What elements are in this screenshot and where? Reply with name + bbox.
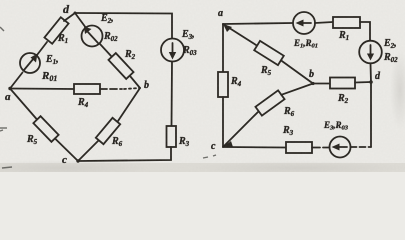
wire R1 to top-right corner bbox=[360, 22, 370, 41]
wire b to R2 bbox=[313, 83, 330, 85]
wire R3 to bottom wire bbox=[78, 147, 171, 161]
wire a to R4 (middle branch) bbox=[10, 88, 74, 91]
resistor R4 bbox=[74, 84, 100, 94]
wire a to E1 (arm a-d lower part) bbox=[10, 73, 23, 89]
diagonal a to R5 bbox=[223, 24, 257, 46]
wire E2 to d bbox=[370, 64, 373, 83]
node dot d (right circuit) bbox=[369, 80, 373, 84]
wire c to R6 (arm c-b) bbox=[78, 141, 98, 161]
wire E2 to R2 bbox=[100, 44, 112, 57]
wire R2 to d bbox=[355, 81, 371, 84]
resistor R1 bbox=[44, 17, 68, 43]
wire c to R3 (bottom edge) bbox=[223, 146, 286, 149]
EMF source E3,R03 (right circuit) bbox=[330, 137, 351, 158]
wire d to bottom-right corner bbox=[370, 82, 372, 147]
resistor R6 bbox=[96, 118, 120, 144]
wire E1 to R1 bbox=[37, 42, 47, 55]
node dot c (right circuit) bbox=[223, 141, 233, 147]
wire R4 to c bbox=[222, 97, 224, 147]
resistor R2 (right circuit) bbox=[330, 78, 355, 89]
wire a to E1 (top edge) bbox=[223, 23, 293, 24]
wire R3 to E3 bbox=[312, 147, 329, 149]
node dot d (left circuit) bbox=[74, 12, 77, 15]
EMF source E2,R02 (right circuit) bbox=[359, 41, 382, 64]
resistor R6 (right circuit) bbox=[255, 90, 284, 115]
wire R5 to b bbox=[281, 60, 313, 83]
stray scan marks bbox=[0, 27, 216, 168]
wire d to E2 (arm d-b upper part) bbox=[75, 13, 86, 28]
resistor R4 (right circuit) bbox=[218, 72, 228, 97]
resistor R5 (right circuit) bbox=[254, 41, 284, 65]
EMF source E1,R01 bbox=[20, 53, 40, 73]
wire R5 to c bbox=[55, 139, 78, 162]
resistor R3 (left circuit) bbox=[167, 126, 177, 147]
diagonal c to R6 bbox=[223, 111, 259, 147]
EMF source E2,R02 bbox=[82, 26, 103, 47]
wire R6 to b bbox=[118, 88, 140, 121]
wire E3 to R3 bbox=[171, 62, 174, 127]
wire R1 to d bbox=[64, 13, 75, 21]
node dot c (left circuit) bbox=[76, 159, 79, 162]
wire R6 to b bbox=[281, 84, 313, 95]
resistor R5 bbox=[33, 116, 58, 142]
wire d to top-right corner bbox=[75, 13, 172, 39]
node dot a (left circuit) bbox=[8, 87, 11, 90]
wire R4 to b (dashed scan look) bbox=[100, 88, 122, 90]
wire a to R5 (arm a-c) bbox=[10, 89, 37, 120]
wire E3 to bottom-right corner bbox=[351, 146, 372, 148]
EMF source E1,R01 (right circuit) bbox=[293, 12, 315, 34]
EMF source E3,R03 bbox=[161, 39, 184, 62]
node dot b (right circuit) bbox=[311, 82, 314, 85]
wire a down left edge to R4 bbox=[222, 24, 224, 72]
resistor R1 (right circuit) bbox=[333, 17, 360, 28]
resistor R2 bbox=[108, 53, 133, 79]
wire R2 to b bbox=[130, 76, 140, 88]
node dot a (right circuit) bbox=[223, 24, 232, 32]
wire E1 to R1 bbox=[315, 22, 333, 23]
resistor R3 (right circuit) bbox=[286, 142, 312, 153]
